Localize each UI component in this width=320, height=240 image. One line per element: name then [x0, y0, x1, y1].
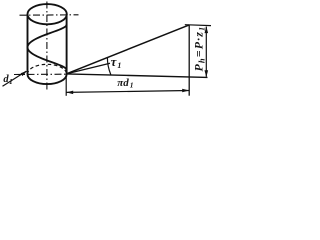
- svg-text:πd: πd: [117, 77, 129, 89]
- Ph arrow down: [205, 70, 209, 77]
- pi d1 dimension line: [66, 91, 189, 93]
- pi d1 extension left: [65, 75, 67, 96]
- bottom ellipse back arc hidden: [28, 64, 67, 74]
- cylinder top ellipse: [28, 4, 67, 24]
- label Ph = P z1 rotated: [192, 26, 207, 72]
- svg-text:Ph=P·z1: Ph=P·z1: [192, 26, 207, 72]
- cylinder left wall: [27, 14, 29, 74]
- baseline of development: [66, 74, 207, 78]
- svg-text:1: 1: [117, 61, 121, 70]
- cylinder axis: [46, 2, 48, 90]
- helix: [28, 25, 67, 70]
- d1 leader: [3, 71, 27, 86]
- bottom ellipse front arc: [28, 74, 67, 84]
- angle arc tau1: [107, 57, 110, 75]
- top center line: [20, 14, 79, 16]
- pitch line (short): [66, 63, 110, 74]
- Ph dimension line: [205, 27, 207, 77]
- triangle right side + extension down: [188, 25, 190, 96]
- cylinder right wall: [66, 14, 68, 74]
- top extension line for Ph: [185, 24, 211, 27]
- pi d1 arrow right: [182, 89, 189, 93]
- svg-text:1: 1: [130, 80, 134, 89]
- pi d1 arrow left: [66, 91, 73, 95]
- bottom center line: [14, 73, 66, 75]
- svg-text:1: 1: [9, 77, 13, 86]
- hypotenuse: [66, 25, 189, 74]
- Ph arrow up: [205, 26, 209, 33]
